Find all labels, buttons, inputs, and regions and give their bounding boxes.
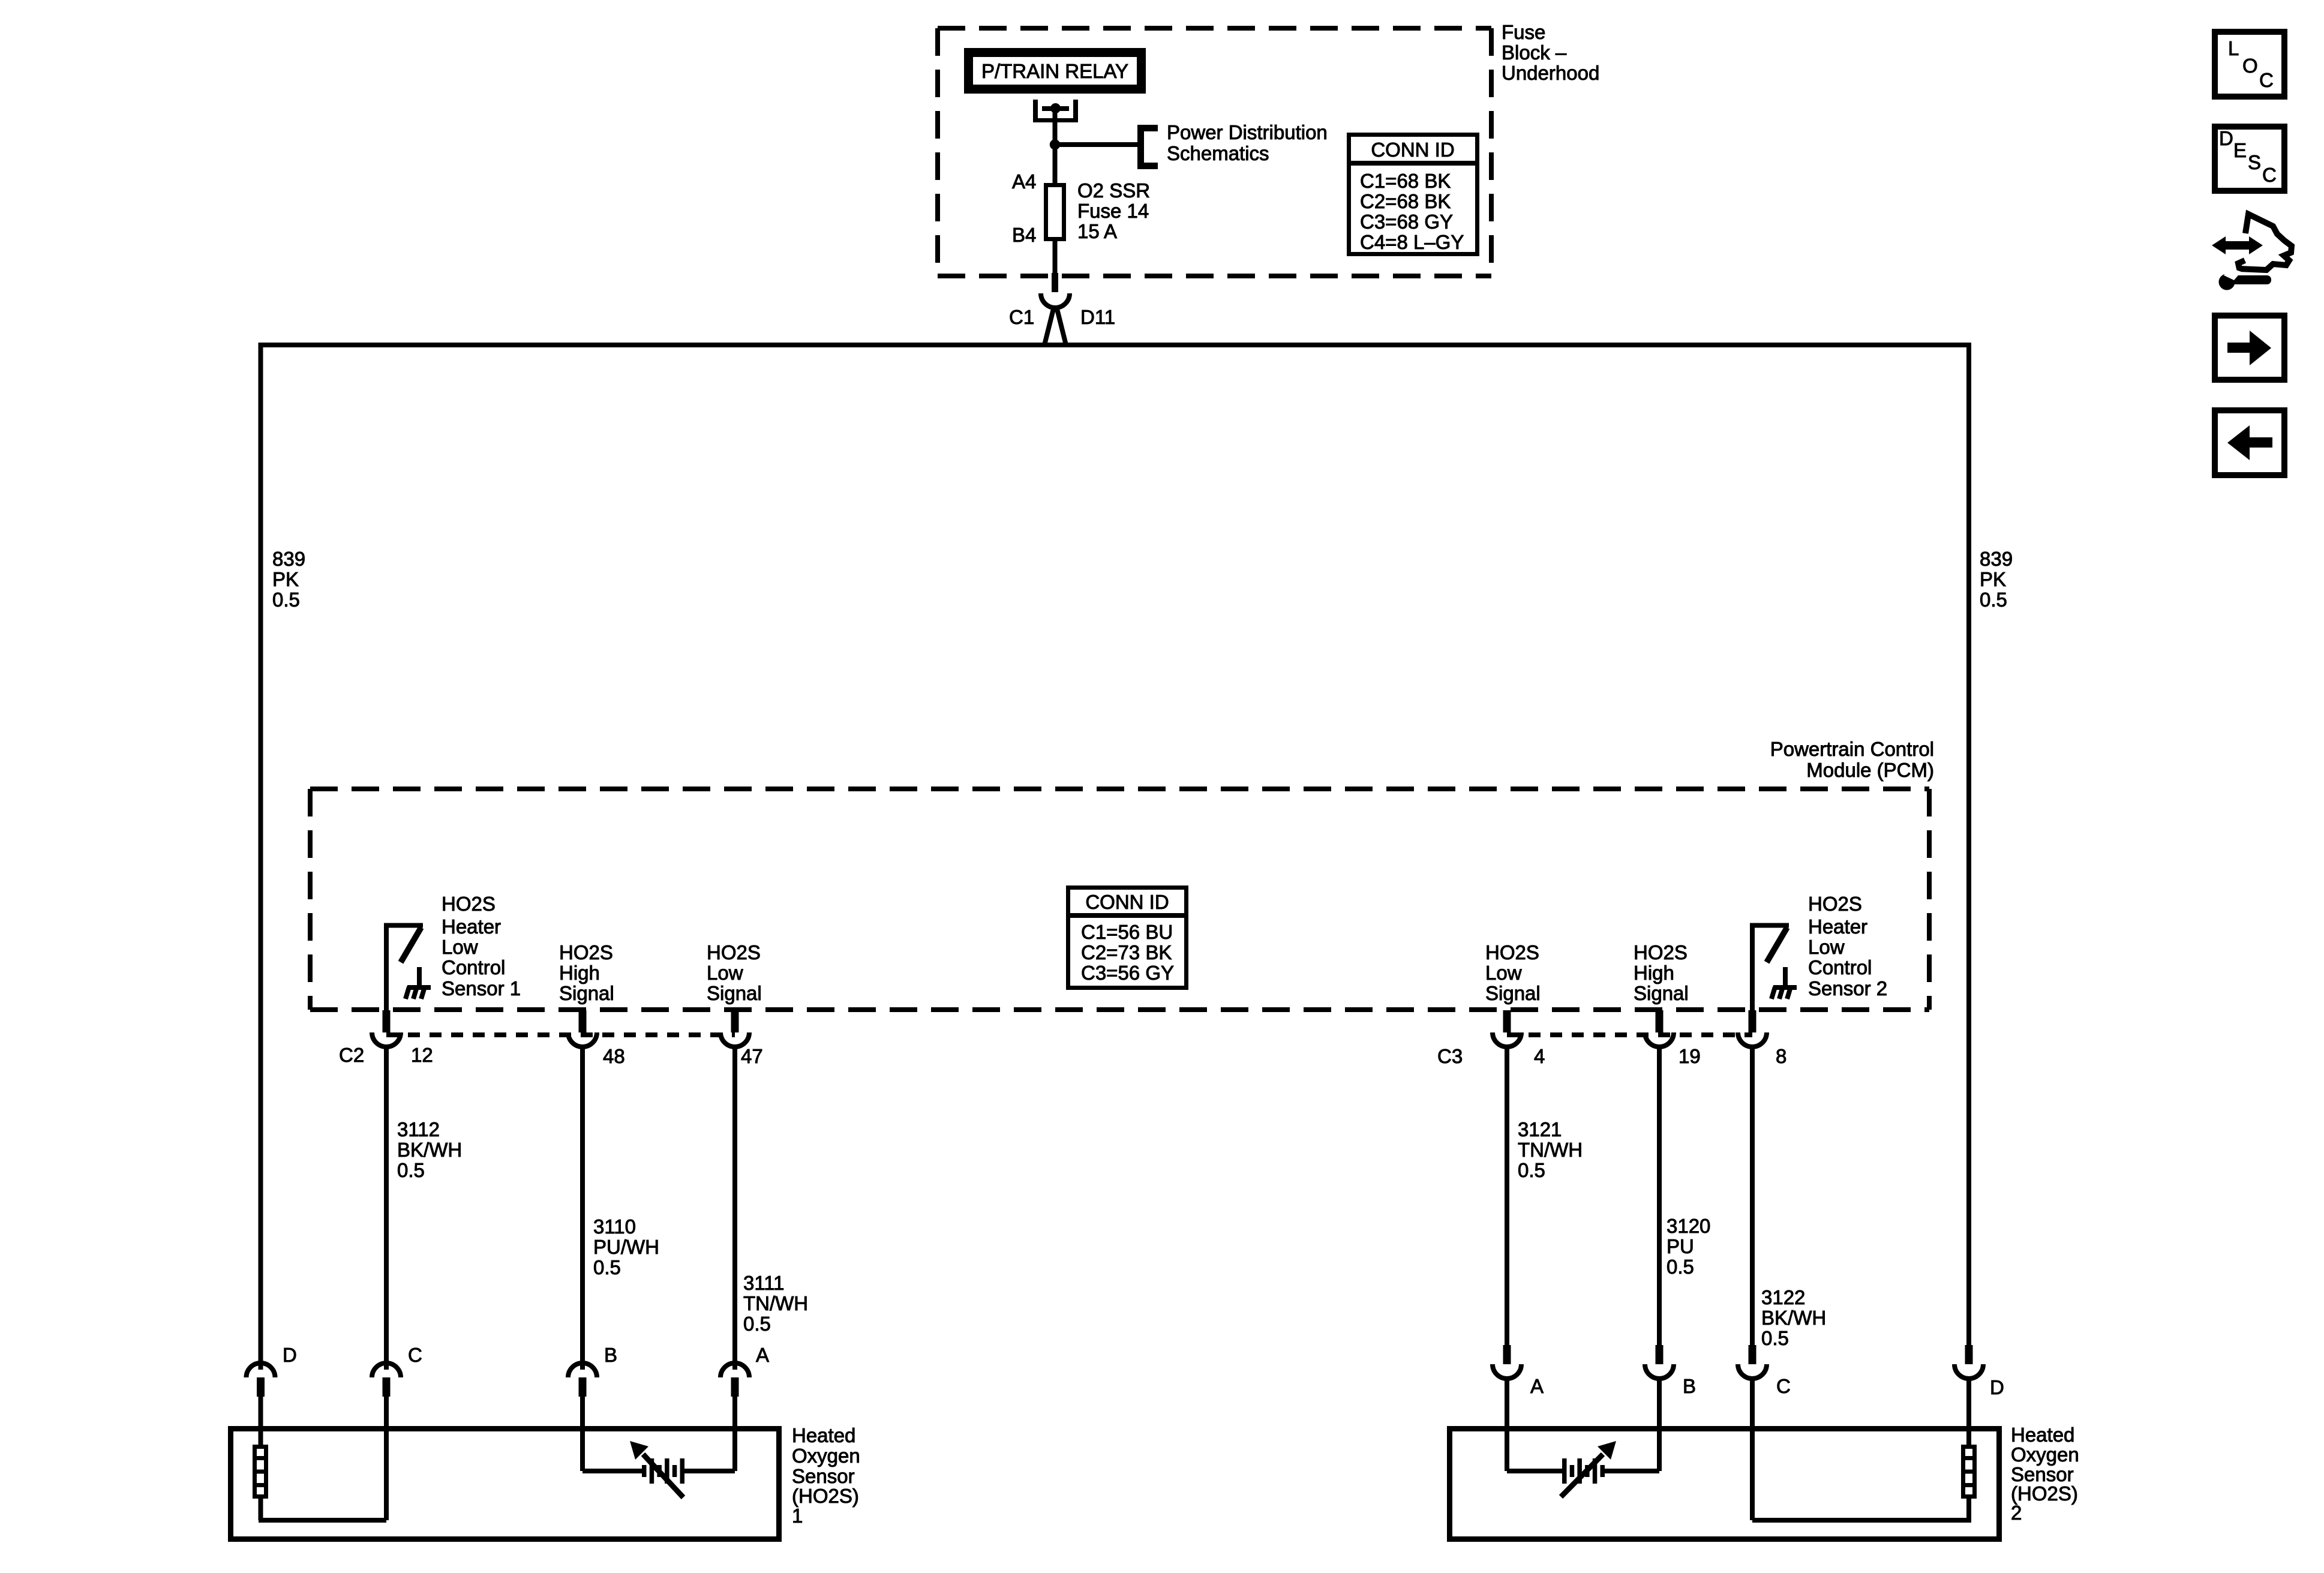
svg-text:A4: A4	[1012, 170, 1036, 193]
label HO2S Heater Low Control Sensor 1	[442, 893, 521, 999]
svg-text:Fuse: Fuse	[1502, 21, 1545, 43]
svg-text:C2: C2	[339, 1044, 364, 1066]
label Power Distribution Schematics	[1167, 121, 1328, 164]
wire pin D to heater sensor 1	[259, 1397, 263, 1445]
label HO2S Low Signal pin 4	[1485, 941, 1541, 1004]
svg-text:D: D	[1990, 1376, 2004, 1398]
wire heater bottom sensor 2	[1966, 1499, 1971, 1520]
svg-text:Control: Control	[1808, 956, 1872, 978]
svg-text:Signal: Signal	[707, 982, 762, 1004]
wire label 3121 TN/WH 0.5	[1518, 1118, 1583, 1181]
svg-text:HO2S: HO2S	[707, 941, 761, 963]
wire pin C to heater sensor 2	[1752, 1518, 1971, 1523]
label HO2S Heater Low Control Sensor 2	[1808, 893, 1887, 999]
svg-text:B: B	[604, 1344, 617, 1366]
svg-text:0.5: 0.5	[1667, 1256, 1694, 1278]
svg-text:D11: D11	[1080, 306, 1115, 328]
svg-text:4: 4	[1534, 1045, 1545, 1067]
wire pin C into sensor 2	[1750, 1379, 1755, 1520]
svg-text:19: 19	[1679, 1045, 1701, 1067]
wire pin A to sense cell sensor 2	[1507, 1469, 1562, 1473]
wire sense cell to pin A sensor 1	[684, 1469, 735, 1473]
svg-text:C4=8 L–GY: C4=8 L–GY	[1360, 231, 1464, 253]
wire label 3120 PU 0.5	[1667, 1215, 1710, 1278]
wire pin B into sensor 2	[1657, 1379, 1662, 1471]
wire 3112 BK/WH pin12 to sensor1 C	[384, 1047, 389, 1370]
label Powertrain Control Module (PCM)	[1770, 738, 1934, 781]
wire fuse to connector C1	[1053, 241, 1058, 274]
wire label 839 PK 0.5 left	[272, 548, 305, 611]
svg-text:839: 839	[272, 548, 305, 570]
svg-text:Block –: Block –	[1502, 41, 1567, 64]
wire junction to fuse	[1053, 145, 1058, 183]
label HO2S High Signal pin 19	[1634, 941, 1689, 1004]
svg-text:Control: Control	[442, 956, 505, 978]
svg-text:Module (PCM): Module (PCM)	[1806, 759, 1934, 781]
svg-text:TN/WH: TN/WH	[1518, 1139, 1583, 1161]
svg-text:A: A	[1530, 1375, 1544, 1397]
svg-text:A: A	[756, 1344, 769, 1366]
svg-text:839: 839	[1980, 548, 2013, 570]
PCM CONN ID table	[1068, 888, 1187, 988]
svg-text:Signal: Signal	[559, 982, 614, 1004]
svg-text:C3=56 GY: C3=56 GY	[1081, 962, 1174, 984]
svg-text:47: 47	[741, 1045, 763, 1067]
svg-text:Heater: Heater	[1808, 915, 1867, 938]
PCM dashed enclosure	[310, 789, 1929, 1010]
svg-text:Schematics: Schematics	[1167, 142, 1269, 164]
wire label 3112 BK/WH 0.5	[397, 1118, 462, 1181]
svg-text:Oxygen: Oxygen	[792, 1445, 860, 1467]
svg-text:TN/WH: TN/WH	[743, 1292, 808, 1314]
svg-text:12: 12	[411, 1044, 433, 1066]
wire driver 1 to pin 12	[384, 925, 389, 1012]
svg-text:O: O	[2242, 55, 2258, 77]
wire 839 PK bus: left vertical, horizontal, right vertical	[261, 345, 1969, 1370]
svg-text:15 A: 15 A	[1077, 220, 1117, 242]
svg-text:BK/WH: BK/WH	[1761, 1307, 1826, 1329]
fuse block label "Fuse Block - Underhood"	[1502, 21, 1599, 84]
svg-text:0.5: 0.5	[743, 1313, 771, 1335]
svg-text:C: C	[2262, 164, 2277, 186]
svg-text:3110: 3110	[593, 1215, 636, 1238]
Heated Oxygen Sensor HO2S 2 box	[1450, 1429, 1999, 1539]
svg-text:BK/WH: BK/WH	[397, 1139, 462, 1161]
svg-text:Heated: Heated	[2011, 1424, 2074, 1446]
svg-text:0.5: 0.5	[593, 1256, 621, 1278]
svg-text:C1=68 BK: C1=68 BK	[1360, 170, 1451, 192]
svg-text:Low: Low	[442, 936, 478, 958]
PCM connector C3 pin 19	[1645, 1010, 1674, 1047]
svg-text:0.5: 0.5	[1518, 1159, 1545, 1181]
svg-text:PU/WH: PU/WH	[593, 1236, 659, 1258]
fuse block underhood dashed enclosure	[938, 28, 1491, 276]
wire pin A into sensor 1	[732, 1397, 737, 1471]
label HO2S Low Signal pin 47	[707, 941, 762, 1004]
connector C1/D11 V splice legs	[1044, 307, 1066, 345]
svg-text:D: D	[283, 1344, 297, 1366]
wire sense cell to pin B sensor 2	[1604, 1469, 1660, 1473]
svg-text:CONN ID: CONN ID	[1371, 139, 1454, 161]
svg-text:B: B	[1683, 1375, 1696, 1397]
svg-text:C2=73 BK: C2=73 BK	[1081, 941, 1172, 963]
wire pin A into sensor 2	[1505, 1379, 1509, 1471]
fuse block CONN ID table	[1349, 135, 1478, 254]
wire 3122 BK/WH pin8 to sensor2 C	[1750, 1047, 1755, 1345]
svg-text:C2=68 BK: C2=68 BK	[1360, 190, 1451, 212]
svg-text:PK: PK	[272, 568, 299, 590]
svg-text:C3: C3	[1437, 1045, 1463, 1067]
svg-text:2: 2	[2011, 1502, 2022, 1524]
svg-text:PU: PU	[1667, 1235, 1694, 1257]
svg-text:C1=56 BU: C1=56 BU	[1081, 921, 1173, 943]
connector C1/D11 arc	[1041, 293, 1070, 308]
svg-text:Low: Low	[707, 962, 743, 984]
svg-text:Sensor 2: Sensor 2	[1808, 977, 1887, 999]
svg-text:D: D	[2219, 127, 2233, 149]
fuse F14 O2 SSR rectangle	[1046, 185, 1064, 239]
wire 3110 PU/WH pin48 to sensor1 B	[580, 1047, 585, 1370]
svg-text:48: 48	[603, 1045, 625, 1067]
svg-text:HO2S: HO2S	[559, 941, 613, 963]
off-page bracket to Power Distribution Schematics	[1141, 128, 1158, 166]
svg-text:L: L	[2228, 37, 2239, 59]
svg-text:E: E	[2233, 139, 2247, 161]
wire heater to pin C sensor 1	[259, 1518, 386, 1523]
Heated Oxygen Sensor HO2S 1 box	[231, 1429, 779, 1539]
label Heated Oxygen Sensor (HO2S) 1	[792, 1424, 860, 1527]
sensor 1 connector pin C	[372, 1363, 401, 1397]
svg-text:Sensor 1: Sensor 1	[442, 977, 521, 999]
svg-text:Heated: Heated	[792, 1424, 855, 1446]
wire pin B to sense cell sensor 1	[582, 1469, 642, 1473]
icon DESC box	[2215, 127, 2284, 191]
wire 3121 TN/WH pin4 to sensor2 A	[1505, 1047, 1509, 1345]
sensor 1 connector pin A	[720, 1363, 749, 1397]
svg-text:HO2S: HO2S	[1634, 941, 1688, 963]
svg-text:Signal: Signal	[1485, 982, 1541, 1004]
wire 3120 PU pin19 to sensor2 B	[1657, 1047, 1662, 1345]
svg-text:0.5: 0.5	[272, 589, 300, 611]
svg-text:C: C	[2259, 69, 2274, 91]
driver switch for HO2S heater low control sensor 1	[384, 926, 423, 963]
svg-text:Oxygen: Oxygen	[2011, 1443, 2079, 1466]
sensor 2 connector pin A	[1493, 1345, 1521, 1379]
connector C3 dashed jumper line	[1507, 1032, 1752, 1037]
wire label 3110 PU/WH 0.5	[593, 1215, 659, 1278]
svg-text:HO2S: HO2S	[1808, 893, 1862, 915]
svg-text:Underhood: Underhood	[1502, 62, 1599, 84]
svg-text:Power Distribution: Power Distribution	[1167, 121, 1328, 143]
svg-text:CONN ID: CONN ID	[1085, 891, 1169, 913]
sensor 1 connector pin B	[568, 1363, 597, 1397]
relay K1 P/TRAIN RELAY box	[969, 53, 1142, 89]
svg-text:0.5: 0.5	[1980, 589, 2007, 611]
svg-text:P/TRAIN RELAY: P/TRAIN RELAY	[981, 60, 1128, 82]
relay contact pin symbol below relay	[1033, 100, 1078, 122]
svg-text:C3=68 GY: C3=68 GY	[1360, 211, 1453, 233]
wire label 839 PK 0.5 right	[1980, 548, 2013, 611]
svg-text:High: High	[1634, 962, 1674, 984]
wire junction to power distribution bracket	[1055, 142, 1139, 147]
PCM connector C3 pin 8	[1738, 1010, 1767, 1047]
svg-text:(HO2S): (HO2S)	[792, 1485, 859, 1507]
wire label 3122 BK/WH 0.5	[1761, 1286, 1826, 1349]
svg-text:3122: 3122	[1761, 1286, 1805, 1308]
svg-text:Powertrain Control: Powertrain Control	[1770, 738, 1934, 760]
sensor 2 connector pin D	[1954, 1345, 1983, 1379]
wire pin B into sensor 1	[580, 1397, 585, 1471]
svg-text:Fuse 14: Fuse 14	[1077, 200, 1149, 222]
svg-text:High: High	[559, 962, 600, 984]
svg-text:Heater: Heater	[442, 915, 501, 938]
wire 3111 TN/WH pin47 to sensor1 A	[732, 1047, 737, 1370]
svg-text:Sensor: Sensor	[792, 1465, 855, 1487]
PCM connector C2 pin 48	[568, 1010, 597, 1047]
wire pin C into sensor 1	[384, 1397, 389, 1520]
ground symbol inside PCM sensor 2 driver	[1771, 967, 1797, 999]
svg-text:1: 1	[792, 1505, 803, 1527]
wire relay contact to junction	[1053, 110, 1058, 145]
svg-text:S: S	[2248, 151, 2261, 173]
icon LOC box	[2215, 32, 2284, 97]
connector C2 dashed jumper line	[386, 1032, 735, 1037]
label Heated Oxygen Sensor (HO2S) 2	[2011, 1424, 2079, 1524]
driver switch for HO2S heater low control sensor 2	[1750, 926, 1789, 963]
sense cell (variable voltage) sensor 1	[642, 1458, 684, 1484]
svg-text:C1: C1	[1009, 306, 1034, 328]
PCM connector C3 pin 4	[1493, 1010, 1521, 1047]
icon schematic reference (arrows harness wrench)	[2212, 214, 2292, 290]
svg-text:B4: B4	[1012, 224, 1036, 246]
sensor 2 connector pin B	[1645, 1345, 1674, 1379]
sensor 2 connector pin C	[1738, 1345, 1767, 1379]
svg-text:3120: 3120	[1667, 1215, 1710, 1237]
svg-text:8: 8	[1776, 1045, 1786, 1067]
wire heater bottom sensor 1	[259, 1499, 263, 1520]
connector C1/D11 stub	[1052, 273, 1058, 292]
junction node dot	[1050, 139, 1060, 149]
icon back arrow box	[2215, 410, 2284, 475]
svg-text:HO2S: HO2S	[1485, 941, 1539, 963]
svg-text:Low: Low	[1485, 962, 1522, 984]
svg-text:Low: Low	[1808, 936, 1845, 958]
svg-text:PK: PK	[1980, 568, 2006, 590]
sense cell (variable voltage) sensor 2	[1562, 1458, 1605, 1484]
variable arrow through sense cell sensor 2	[1561, 1441, 1616, 1497]
svg-text:3111: 3111	[743, 1272, 785, 1294]
ground symbol inside PCM sensor 1 driver	[406, 967, 431, 999]
PCM connector C2 pin 12	[372, 1010, 401, 1047]
svg-text:HO2S: HO2S	[442, 893, 496, 915]
icon forward arrow box	[2215, 316, 2284, 380]
svg-text:C: C	[408, 1344, 422, 1366]
sensor 1 connector pin D	[247, 1363, 275, 1397]
wire driver 2 to pin 8	[1750, 925, 1755, 1012]
svg-text:0.5: 0.5	[397, 1159, 425, 1181]
variable arrow through sense cell sensor 1	[630, 1441, 683, 1497]
svg-text:3121: 3121	[1518, 1118, 1562, 1140]
svg-text:Signal: Signal	[1634, 982, 1689, 1004]
fuse value label O2 SSR Fuse 14 15 A	[1077, 179, 1150, 242]
wire pin D to heater sensor 2	[1966, 1379, 1971, 1445]
svg-text:O2 SSR: O2 SSR	[1077, 179, 1150, 202]
wire label 3111 TN/WH 0.5	[743, 1272, 808, 1335]
svg-text:3112: 3112	[397, 1118, 440, 1140]
heater element sensor 2	[1961, 1447, 1977, 1497]
heater element sensor 1	[253, 1447, 268, 1497]
svg-text:C: C	[1776, 1375, 1791, 1397]
label HO2S High Signal pin 48	[559, 941, 614, 1004]
svg-text:0.5: 0.5	[1761, 1327, 1789, 1349]
PCM connector C2 pin 47	[720, 1010, 749, 1047]
